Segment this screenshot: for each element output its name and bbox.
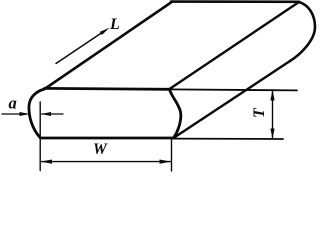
svg-text:W: W <box>93 141 108 158</box>
svg-text:L: L <box>109 16 120 33</box>
svg-text:a: a <box>9 93 17 112</box>
svg-text:T: T <box>251 107 268 118</box>
